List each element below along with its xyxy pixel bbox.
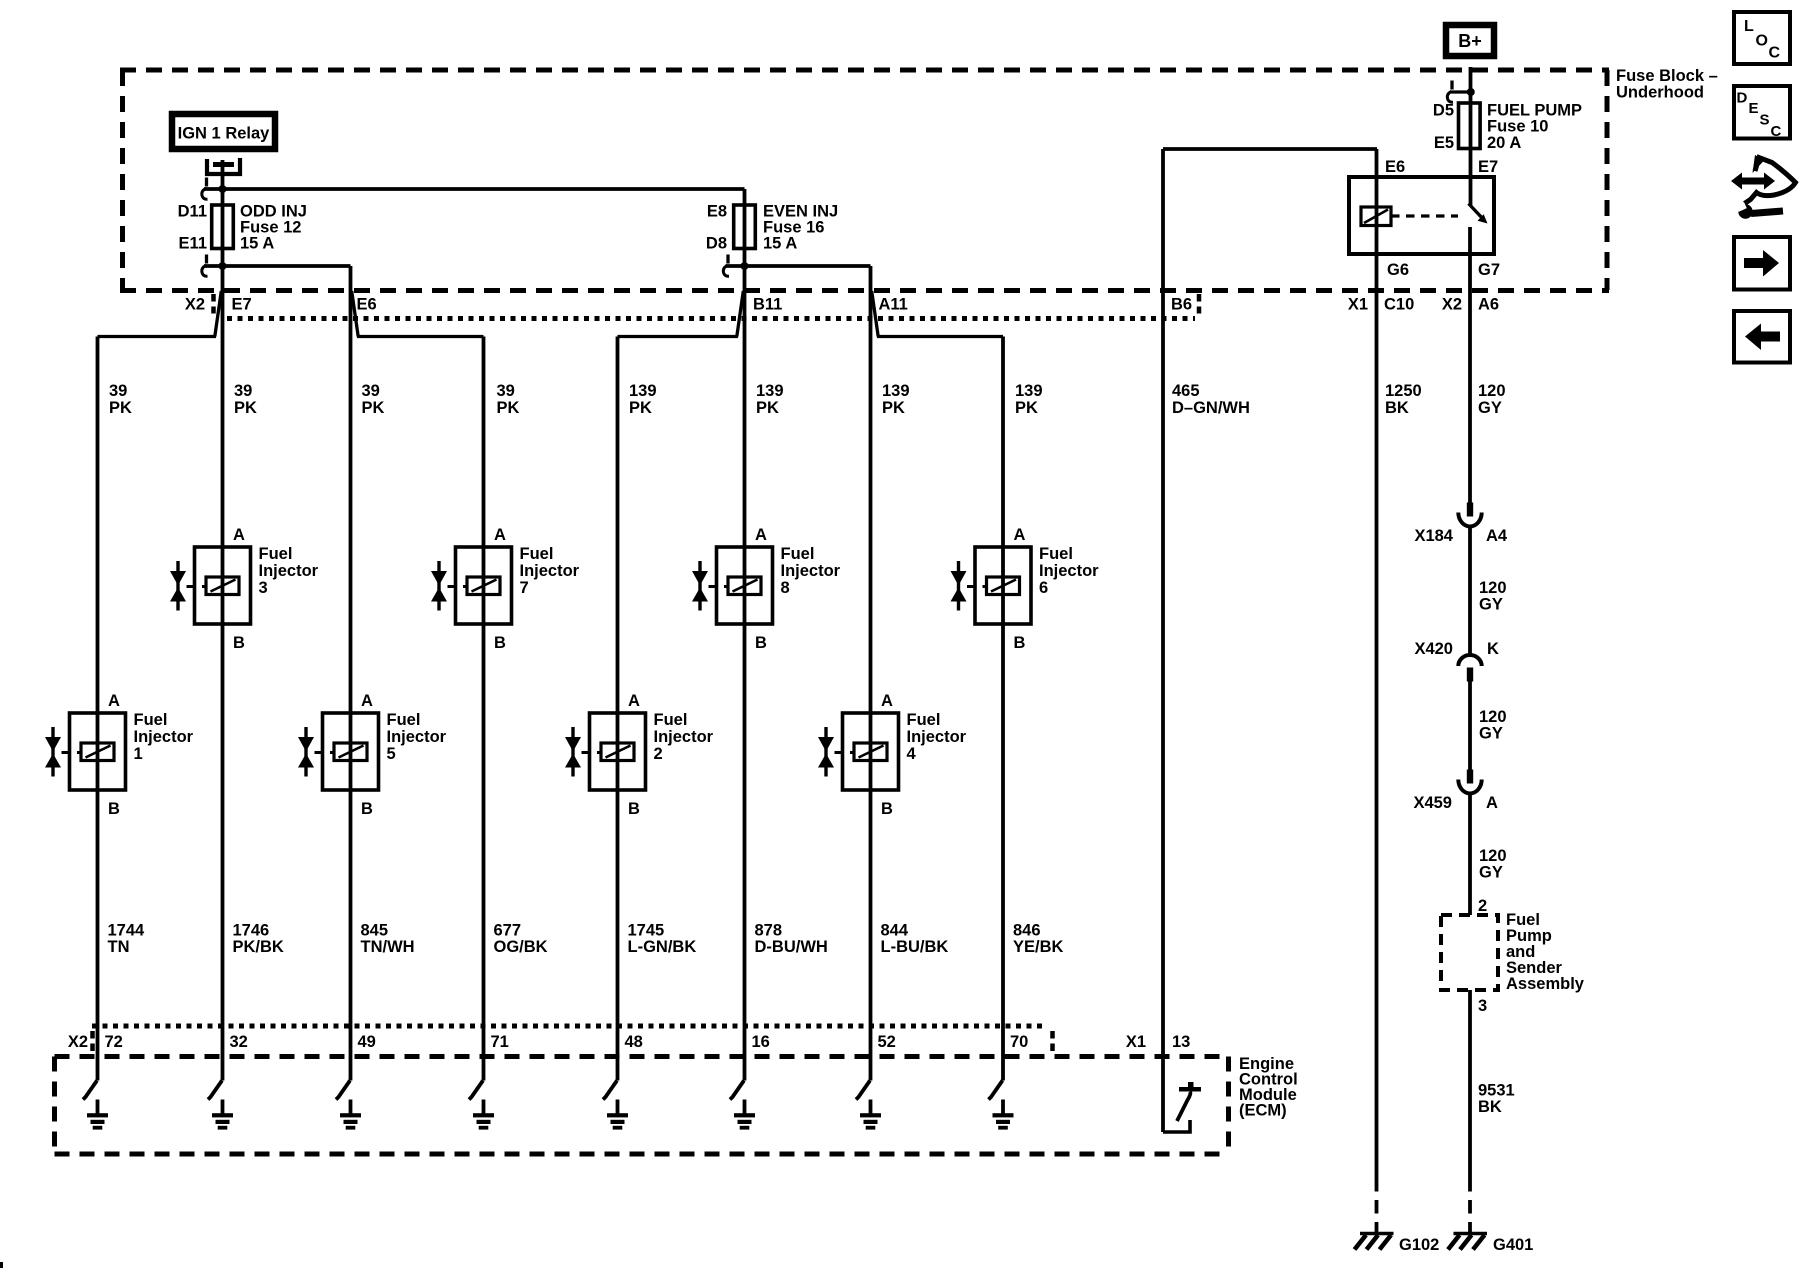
svg-text:1744: 1744 bbox=[108, 922, 146, 940]
svg-text:Injector: Injector bbox=[781, 562, 841, 580]
svg-text:1745: 1745 bbox=[628, 922, 665, 940]
svg-text:E5: E5 bbox=[1434, 134, 1454, 152]
svg-text:20 A: 20 A bbox=[1487, 134, 1521, 152]
svg-text:39: 39 bbox=[234, 382, 252, 400]
svg-text:Fuel: Fuel bbox=[907, 711, 941, 729]
svg-text:G6: G6 bbox=[1387, 261, 1409, 279]
svg-text:1746: 1746 bbox=[233, 922, 270, 940]
svg-text:139: 139 bbox=[756, 382, 784, 400]
svg-text:A: A bbox=[108, 692, 120, 710]
svg-text:TN/WH: TN/WH bbox=[361, 938, 415, 956]
svg-text:X1: X1 bbox=[1348, 296, 1368, 314]
svg-text:Injector: Injector bbox=[520, 562, 580, 580]
svg-text:A11: A11 bbox=[879, 296, 908, 314]
svg-text:X2: X2 bbox=[68, 1033, 88, 1051]
svg-text:Fuel: Fuel bbox=[520, 545, 554, 563]
svg-text:G401: G401 bbox=[1493, 1236, 1533, 1254]
svg-text:D–GN/WH: D–GN/WH bbox=[1172, 399, 1250, 417]
svg-text:A: A bbox=[628, 692, 640, 710]
svg-text:X459: X459 bbox=[1413, 794, 1452, 812]
svg-text:E7: E7 bbox=[1478, 158, 1498, 176]
svg-text:E11: E11 bbox=[179, 235, 207, 253]
svg-text:8: 8 bbox=[781, 579, 790, 597]
svg-text:B: B bbox=[881, 800, 893, 818]
svg-text:Fuel: Fuel bbox=[654, 711, 688, 729]
svg-text:15 A: 15 A bbox=[240, 235, 274, 253]
svg-text:Injector: Injector bbox=[1039, 562, 1099, 580]
svg-text:70: 70 bbox=[1010, 1033, 1028, 1051]
svg-text:Fuel: Fuel bbox=[781, 545, 815, 563]
svg-text:846: 846 bbox=[1013, 922, 1041, 940]
svg-text:Injector: Injector bbox=[259, 562, 319, 580]
svg-text:52: 52 bbox=[878, 1033, 896, 1051]
svg-text:C: C bbox=[1769, 45, 1781, 62]
svg-text:Fuel: Fuel bbox=[134, 711, 168, 729]
svg-text:A: A bbox=[1486, 794, 1498, 812]
svg-text:A6: A6 bbox=[1478, 296, 1499, 314]
svg-text:4: 4 bbox=[907, 745, 917, 763]
svg-text:PK: PK bbox=[1015, 399, 1038, 417]
svg-text:120: 120 bbox=[1479, 847, 1507, 865]
svg-text:5: 5 bbox=[387, 745, 396, 763]
svg-text:E: E bbox=[1749, 100, 1759, 117]
svg-text:139: 139 bbox=[1015, 382, 1043, 400]
svg-text:GY: GY bbox=[1479, 725, 1503, 743]
svg-text:15 A: 15 A bbox=[763, 235, 797, 253]
svg-text:845: 845 bbox=[361, 922, 389, 940]
svg-text:9531: 9531 bbox=[1478, 1082, 1515, 1100]
svg-text:2: 2 bbox=[1478, 897, 1487, 915]
svg-text:K: K bbox=[1487, 640, 1499, 658]
svg-text:Assembly: Assembly bbox=[1506, 975, 1585, 993]
svg-text:A: A bbox=[494, 526, 506, 544]
svg-text:GY: GY bbox=[1478, 399, 1502, 417]
svg-text:1: 1 bbox=[134, 745, 143, 763]
svg-text:Fuel: Fuel bbox=[259, 545, 293, 563]
svg-text:S: S bbox=[1760, 112, 1770, 129]
svg-text:B: B bbox=[628, 800, 640, 818]
svg-text:465: 465 bbox=[1172, 382, 1200, 400]
svg-text:Fuel: Fuel bbox=[387, 711, 421, 729]
svg-text:E6: E6 bbox=[1385, 158, 1405, 176]
svg-text:B: B bbox=[494, 634, 506, 652]
svg-text:Fuel: Fuel bbox=[1039, 545, 1073, 563]
svg-text:3: 3 bbox=[1478, 997, 1487, 1015]
svg-text:C: C bbox=[1771, 123, 1782, 140]
svg-text:PK: PK bbox=[756, 399, 779, 417]
svg-text:X2: X2 bbox=[1442, 296, 1462, 314]
svg-text:BK: BK bbox=[1478, 1098, 1502, 1116]
svg-text:X184: X184 bbox=[1414, 527, 1453, 545]
svg-text:BK: BK bbox=[1385, 399, 1409, 417]
svg-text:X420: X420 bbox=[1414, 640, 1453, 658]
svg-text:X2: X2 bbox=[185, 296, 205, 314]
svg-text:1250: 1250 bbox=[1385, 382, 1422, 400]
svg-text:A: A bbox=[881, 692, 893, 710]
svg-text:139: 139 bbox=[629, 382, 657, 400]
svg-text:O: O bbox=[1756, 33, 1768, 50]
svg-text:A4: A4 bbox=[1486, 527, 1508, 545]
svg-text:PK: PK bbox=[629, 399, 652, 417]
svg-text:B: B bbox=[233, 634, 245, 652]
svg-text:Injector: Injector bbox=[907, 728, 967, 746]
svg-text:844: 844 bbox=[881, 922, 909, 940]
svg-text:32: 32 bbox=[230, 1033, 248, 1051]
svg-text:72: 72 bbox=[105, 1033, 123, 1051]
svg-text:C10: C10 bbox=[1384, 296, 1414, 314]
svg-text:PK: PK bbox=[882, 399, 905, 417]
svg-text:E8: E8 bbox=[707, 203, 727, 221]
svg-text:PK: PK bbox=[234, 399, 257, 417]
svg-text:G7: G7 bbox=[1478, 261, 1500, 279]
svg-text:TN: TN bbox=[108, 938, 130, 956]
svg-text:Injector: Injector bbox=[134, 728, 194, 746]
svg-text:PK: PK bbox=[497, 399, 520, 417]
svg-text:B11: B11 bbox=[753, 296, 782, 314]
svg-text:X1: X1 bbox=[1126, 1033, 1146, 1051]
svg-text:39: 39 bbox=[109, 382, 127, 400]
svg-text:B+: B+ bbox=[1458, 31, 1482, 51]
svg-text:120: 120 bbox=[1479, 579, 1507, 597]
svg-text:6: 6 bbox=[1039, 579, 1048, 597]
svg-text:878: 878 bbox=[755, 922, 783, 940]
svg-text:Fuse Block –: Fuse Block – bbox=[1616, 67, 1718, 85]
svg-text:D: D bbox=[1737, 90, 1748, 107]
svg-text:120: 120 bbox=[1479, 708, 1507, 726]
svg-text:G102: G102 bbox=[1399, 1236, 1439, 1254]
svg-text:PK: PK bbox=[109, 399, 132, 417]
svg-text:E7: E7 bbox=[232, 296, 252, 314]
svg-text:A: A bbox=[755, 526, 767, 544]
svg-text:139: 139 bbox=[882, 382, 910, 400]
svg-text:B: B bbox=[755, 634, 767, 652]
svg-text:B: B bbox=[1014, 634, 1026, 652]
svg-text:PK/BK: PK/BK bbox=[233, 938, 284, 956]
svg-text:48: 48 bbox=[625, 1033, 643, 1051]
svg-text:3: 3 bbox=[259, 579, 268, 597]
svg-text:B6: B6 bbox=[1171, 296, 1192, 314]
svg-text:D11: D11 bbox=[178, 203, 207, 221]
svg-text:IGN 1 Relay: IGN 1 Relay bbox=[178, 125, 271, 143]
svg-text:A: A bbox=[361, 692, 373, 710]
svg-text:D5: D5 bbox=[1433, 102, 1454, 120]
svg-text:13: 13 bbox=[1172, 1033, 1190, 1051]
svg-text:120: 120 bbox=[1478, 382, 1506, 400]
svg-text:677: 677 bbox=[494, 922, 522, 940]
svg-text:Fuse 10: Fuse 10 bbox=[1487, 118, 1548, 136]
svg-text:71: 71 bbox=[491, 1033, 509, 1051]
svg-text:7: 7 bbox=[520, 579, 529, 597]
svg-text:B: B bbox=[361, 800, 373, 818]
svg-text:D-BU/WH: D-BU/WH bbox=[755, 938, 828, 956]
svg-text:A: A bbox=[1014, 526, 1026, 544]
svg-text:GY: GY bbox=[1479, 596, 1503, 614]
svg-text:YE/BK: YE/BK bbox=[1013, 938, 1064, 956]
svg-text:49: 49 bbox=[358, 1033, 376, 1051]
svg-text:2: 2 bbox=[654, 745, 663, 763]
svg-text:Underhood: Underhood bbox=[1616, 84, 1704, 102]
svg-text:E6: E6 bbox=[357, 296, 377, 314]
svg-text:L-BU/BK: L-BU/BK bbox=[881, 938, 949, 956]
svg-text:16: 16 bbox=[752, 1033, 770, 1051]
svg-text:Injector: Injector bbox=[387, 728, 447, 746]
svg-text:L: L bbox=[1744, 18, 1754, 35]
svg-text:GY: GY bbox=[1479, 864, 1503, 882]
svg-text:PK: PK bbox=[362, 399, 385, 417]
svg-text:39: 39 bbox=[497, 382, 515, 400]
svg-text:D8: D8 bbox=[706, 235, 727, 253]
svg-text:OG/BK: OG/BK bbox=[494, 938, 548, 956]
svg-text:39: 39 bbox=[362, 382, 380, 400]
svg-text:L-GN/BK: L-GN/BK bbox=[628, 938, 697, 956]
svg-text:Injector: Injector bbox=[654, 728, 714, 746]
svg-text:A: A bbox=[233, 526, 245, 544]
svg-text:(ECM): (ECM) bbox=[1239, 1102, 1287, 1120]
svg-text:B: B bbox=[108, 800, 120, 818]
